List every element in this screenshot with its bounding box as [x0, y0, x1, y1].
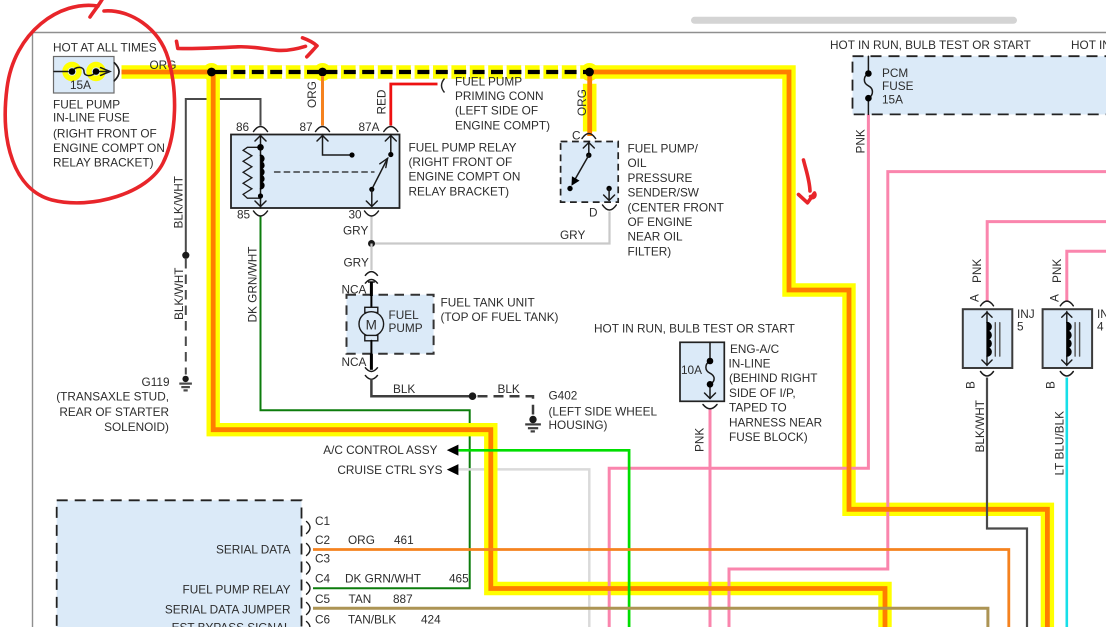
svg-text:FUEL PUMP RELAY: FUEL PUMP RELAY	[183, 583, 291, 597]
svg-text:ORG: ORG	[348, 533, 375, 547]
wire NCA black into tank box	[370, 282, 373, 296]
svg-text:ENGINE COMPT): ENGINE COMPT)	[455, 118, 550, 132]
svg-text:B: B	[1044, 381, 1058, 389]
BLK/WHT dashed section to G119	[185, 259, 187, 375]
wire PNK 2 from right edge down/left/down	[729, 172, 1106, 627]
svg-text:(BEHIND RIGHT: (BEHIND RIGHT	[729, 371, 817, 385]
svg-text:NEAR OIL: NEAR OIL	[628, 230, 684, 244]
INJ4 pin arc A	[1060, 301, 1073, 306]
svg-text:PNK: PNK	[1050, 259, 1064, 283]
PCM fuse F2 symbol	[864, 56, 872, 114]
svg-text:REAR OF STARTER: REAR OF STARTER	[59, 405, 169, 419]
relay 87A contact	[390, 135, 392, 153]
fuel tank unit motor M	[359, 296, 384, 354]
svg-text:5: 5	[1017, 320, 1024, 334]
svg-text:SIDE OF I/P,: SIDE OF I/P,	[729, 386, 796, 400]
svg-text:A: A	[968, 294, 982, 302]
fuse dot halo 2	[89, 65, 103, 79]
fuel pump in-line fuse box fill	[54, 57, 115, 94]
svg-text:4: 4	[1097, 320, 1104, 334]
relay 87 contact	[323, 135, 353, 156]
svg-text:ENG-A/C: ENG-A/C	[730, 342, 780, 356]
svg-text:SERIAL DATA: SERIAL DATA	[216, 543, 291, 557]
sender pin arc C	[582, 134, 596, 139]
svg-text:DK GRN/WHT: DK GRN/WHT	[246, 246, 260, 322]
svg-text:15A: 15A	[70, 78, 91, 92]
svg-text:RELAY BRACKET): RELAY BRACKET)	[409, 184, 510, 198]
relay box fill	[231, 135, 400, 209]
svg-text:BLK/WHT: BLK/WHT	[172, 176, 186, 228]
priming conn symbol	[442, 79, 445, 93]
red annotation pen tail	[90, 0, 103, 17]
connector pin C4	[307, 582, 311, 594]
svg-text:C1: C1	[315, 514, 330, 528]
arrow to A/C CONTROL ASSY	[447, 445, 459, 456]
wire GRY junction down to tank connector	[370, 244, 372, 271]
svg-text:IN-LINE: IN-LINE	[729, 357, 771, 371]
svg-text:HOT IN RUN, BULB TEST OR START: HOT IN RUN, BULB TEST OR START	[594, 322, 795, 336]
svg-text:PRESSURE: PRESSURE	[628, 171, 693, 185]
wire GRY cruise ctrl sys	[459, 469, 590, 627]
white gaps in dashed span of bus	[213, 65, 590, 78]
svg-text:GRY: GRY	[343, 224, 368, 238]
wire GRY relay pin 30 down to junction	[370, 217, 372, 244]
INJ5 pin arc B	[981, 372, 994, 377]
svg-text:A: A	[1048, 294, 1062, 302]
relay pin arc 85	[254, 211, 268, 216]
svg-text:424: 424	[421, 612, 441, 626]
svg-text:RED: RED	[375, 90, 389, 115]
bus junction dot 1	[207, 68, 216, 77]
INJ 4 box	[1043, 309, 1093, 368]
connector pin C6	[307, 622, 311, 627]
relay coil line 86-85	[260, 135, 262, 209]
svg-text:C2: C2	[315, 533, 330, 547]
orange core ORG drop to pin C	[587, 74, 592, 136]
ground G402	[525, 416, 541, 432]
fuse dot halo 1	[65, 65, 79, 79]
junction halo 2	[314, 63, 332, 81]
ground G119	[179, 376, 192, 391]
yellow band on ORG drop to sender pin C	[583, 84, 597, 132]
svg-text:FUSE BLOCK): FUSE BLOCK)	[729, 430, 808, 444]
wire BLK/WHT from INJ5 pin B down with jog	[987, 378, 1027, 627]
svg-text:FUEL TANK UNIT: FUEL TANK UNIT	[441, 296, 535, 310]
svg-text:B: B	[964, 381, 978, 389]
svg-text:(TRANSAXLE STUD,: (TRANSAXLE STUD,	[56, 390, 169, 404]
svg-text:C4: C4	[315, 572, 331, 586]
svg-text:IN-LINE FUSE: IN-LINE FUSE	[53, 111, 130, 125]
svg-text:M: M	[366, 317, 377, 332]
GRY junction dot	[368, 240, 375, 247]
black dashed wire segment of hot bus	[214, 70, 590, 74]
highlighted circuit yellow band path A	[122, 72, 1048, 627]
svg-text:C5: C5	[315, 592, 331, 606]
connector symbol after fuse	[114, 63, 119, 81]
wire GREEN A/C control assy	[459, 450, 630, 627]
INJ4 pin arc B	[1060, 372, 1073, 377]
svg-text:PNK: PNK	[970, 259, 984, 283]
svg-text:BLK: BLK	[498, 382, 520, 396]
svg-text:TAN: TAN	[349, 592, 372, 606]
ENG-A/C pin arc	[703, 405, 717, 409]
svg-text:HOT IN RUN, BULB TEST OR START: HOT IN RUN, BULB TEST OR START	[830, 38, 1031, 52]
wire PNK 3 to INJ 5	[987, 222, 1106, 301]
svg-text:(RIGHT FRONT OF: (RIGHT FRONT OF	[409, 155, 513, 169]
svg-text:461: 461	[394, 533, 414, 547]
wire LT BLU/BLK from INJ4 pin B down	[1066, 378, 1069, 627]
svg-text:RELAY BRACKET): RELAY BRACKET)	[53, 156, 154, 170]
svg-text:FUEL PUMP/: FUEL PUMP/	[628, 142, 699, 156]
svg-text:PNK: PNK	[854, 129, 868, 153]
relay resistor zigzag	[243, 147, 260, 198]
fuel tank unit box	[347, 295, 434, 354]
svg-text:FUEL: FUEL	[389, 308, 420, 322]
relay switch blade	[372, 159, 388, 190]
wire ORG C2 row 461	[313, 550, 1009, 627]
PCM connector box bottom-left	[57, 500, 302, 627]
svg-text:(LEFT SIDE WHEEL: (LEFT SIDE WHEEL	[549, 405, 658, 419]
connector pin C5	[307, 603, 311, 615]
red arrow annotation right (down)	[804, 160, 811, 191]
orange core path A solid part 1 (fuse to junction 1)	[122, 70, 212, 75]
svg-text:LT BLU/BLK: LT BLU/BLK	[1053, 411, 1067, 476]
relay U1 internals	[243, 135, 396, 209]
svg-text:A/C CONTROL ASSY: A/C CONTROL ASSY	[323, 443, 437, 457]
bus junction dot 3	[585, 68, 594, 77]
svg-text:SENDER/SW: SENDER/SW	[628, 186, 700, 200]
svg-text:ENGINE COMPT ON: ENGINE COMPT ON	[53, 141, 165, 155]
svg-text:C6: C6	[315, 612, 331, 626]
sender/sw box fill	[561, 142, 619, 203]
svg-text:(LEFT SIDE OF: (LEFT SIDE OF	[455, 104, 538, 118]
in-line connector arcs above tank (NCA)	[365, 272, 378, 276]
wire ORG junction2 to relay pin 87	[321, 76, 324, 126]
wire PNK from PCM fuse down/left/down	[609, 114, 868, 627]
ENG-A/C in-line fuse box	[680, 342, 724, 401]
svg-text:86: 86	[236, 120, 250, 134]
svg-text:BLK/WHT: BLK/WHT	[172, 268, 186, 320]
svg-text:(RIGHT FRONT OF: (RIGHT FRONT OF	[53, 127, 157, 141]
svg-text:85: 85	[237, 208, 251, 222]
svg-text:HARNESS NEAR: HARNESS NEAR	[729, 415, 822, 429]
svg-text:10A: 10A	[681, 363, 702, 377]
bus junction dot 2	[318, 68, 327, 77]
svg-text:DK GRN/WHT: DK GRN/WHT	[345, 572, 421, 586]
in-line connector arcs below tank (NCA)	[365, 367, 378, 371]
relay mech dashed link	[275, 171, 375, 173]
highlighted circuit yellow band path B	[213, 72, 885, 627]
wire DK GRN/WHT relay pin 85 down/right/down to C4	[261, 217, 470, 589]
wire PNK 4 to INJ 4	[1067, 251, 1106, 301]
arrow to CRUISE CTRL SYS	[447, 464, 459, 475]
svg-text:ORG: ORG	[305, 81, 319, 108]
svg-text:HOT IN RUN, BULB: HOT IN RUN, BULB	[1071, 38, 1106, 52]
scrollbar thumb	[691, 17, 1017, 24]
wire BLK from tank connector down and right	[371, 379, 472, 397]
connector pin C2	[307, 544, 311, 556]
svg-text:GRY: GRY	[560, 228, 585, 242]
svg-text:NCA: NCA	[342, 283, 367, 297]
svg-text:SOLENOID): SOLENOID)	[104, 420, 169, 434]
svg-text:FUSE: FUSE	[882, 79, 914, 93]
relay pin arc 87	[316, 127, 330, 132]
sender/sw U2 internals	[567, 142, 614, 201]
svg-text:30: 30	[349, 208, 363, 222]
svg-text:87: 87	[300, 120, 313, 134]
svg-text:PNK: PNK	[693, 428, 707, 452]
orange core path A solid part 2 (junction 3 onward)	[590, 72, 1048, 627]
BLK junction dot	[469, 392, 477, 400]
svg-text:NCA: NCA	[342, 355, 367, 369]
wire BLK/WHT from relay pin 86 up/left/down to G119	[186, 99, 261, 255]
svg-text:D: D	[589, 206, 598, 220]
relay coil junction dots	[257, 144, 264, 151]
svg-text:(CENTER FRONT: (CENTER FRONT	[628, 200, 724, 214]
svg-text:BLK: BLK	[393, 382, 415, 396]
PCM fuse box	[853, 56, 1106, 114]
svg-text:SERIAL DATA JUMPER: SERIAL DATA JUMPER	[165, 603, 291, 617]
wire NCA black out of tank box	[370, 354, 373, 370]
svg-text:BLK/WHT: BLK/WHT	[973, 400, 987, 452]
connector pin C1	[307, 522, 311, 534]
svg-text:FUEL PUMP: FUEL PUMP	[455, 75, 522, 89]
fuse F1 symbol (fuel pump in-line fuse 15A)	[54, 67, 110, 75]
relay 30 exit	[371, 189, 373, 206]
wire BLK dashed to G402	[478, 396, 534, 414]
svg-text:OIL: OIL	[628, 156, 647, 170]
svg-text:G402: G402	[549, 389, 578, 403]
svg-text:EST BYPASS SIGNAL: EST BYPASS SIGNAL	[172, 621, 291, 627]
svg-text:ENGINE COMPT ON: ENGINE COMPT ON	[409, 170, 521, 184]
svg-text:OF ENGINE: OF ENGINE	[628, 215, 693, 229]
relay pin arc 87A	[384, 127, 398, 132]
svg-text:FUEL PUMP: FUEL PUMP	[53, 98, 120, 112]
svg-text:PCM: PCM	[882, 66, 908, 80]
svg-text:TAPED TO: TAPED TO	[729, 401, 787, 415]
svg-text:887: 887	[393, 592, 413, 606]
INJ 5 internals	[982, 312, 1000, 366]
relay pin arc 86	[254, 127, 268, 132]
red hand-drawn circle annotation	[5, 5, 174, 203]
red arrow annotation top	[177, 41, 306, 50]
INJ5 pin arc A	[981, 301, 994, 306]
svg-text:TAN/BLK: TAN/BLK	[348, 612, 396, 626]
ENG-A/C fuse F3 symbol	[705, 342, 716, 398]
relay coil bumps	[261, 155, 264, 189]
orange core path B	[213, 72, 885, 627]
svg-text:HOUSING): HOUSING)	[549, 418, 608, 432]
junction halo 1	[203, 63, 221, 81]
svg-text:PRIMING CONN: PRIMING CONN	[455, 89, 543, 103]
relay pin arc 30	[365, 211, 379, 216]
INJ 5 box	[963, 309, 1013, 368]
wire GRY junction right and up to sender pin D	[372, 212, 610, 244]
svg-text:PUMP: PUMP	[389, 321, 423, 335]
BLK/WHT junction dot	[182, 252, 189, 259]
svg-text:G119: G119	[142, 375, 170, 389]
svg-text:87A: 87A	[359, 120, 380, 134]
svg-text:(TOP OF FUEL TANK): (TOP OF FUEL TANK)	[441, 310, 559, 324]
wire PNK from ENG-A/C fuse down	[709, 410, 712, 627]
junction halo 3	[581, 63, 599, 81]
wire TAN C5 row 887	[313, 608, 988, 627]
svg-text:465: 465	[449, 572, 469, 586]
INJ 4 internals	[1062, 312, 1080, 366]
svg-text:15A: 15A	[882, 92, 903, 106]
svg-text:HOT AT ALL TIMES: HOT AT ALL TIMES	[53, 41, 157, 55]
wire RED relay pin 87A to priming connector	[391, 84, 438, 126]
svg-text:C3: C3	[315, 552, 331, 566]
svg-text:C: C	[572, 129, 581, 143]
svg-text:FILTER): FILTER)	[628, 244, 672, 258]
svg-text:ORG: ORG	[575, 89, 589, 116]
connector pin C3	[307, 562, 311, 574]
svg-text:FUEL PUMP RELAY: FUEL PUMP RELAY	[409, 141, 517, 155]
sender pin arc D	[603, 205, 617, 210]
svg-text:GRY: GRY	[344, 256, 369, 270]
svg-text:CRUISE CTRL SYS: CRUISE CTRL SYS	[337, 463, 442, 477]
